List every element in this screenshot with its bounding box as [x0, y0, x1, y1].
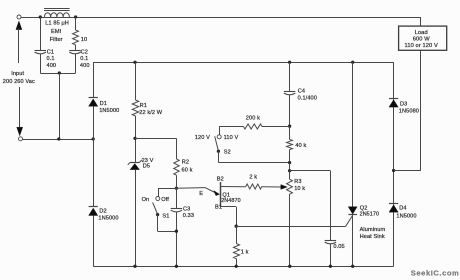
- svg-text:1N5080: 1N5080: [399, 108, 419, 114]
- svg-text:120 V: 120 V: [195, 135, 210, 141]
- svg-text:0.05: 0.05: [333, 244, 344, 250]
- svg-text:1N5000: 1N5000: [98, 216, 118, 222]
- svg-text:D1: D1: [100, 101, 107, 107]
- svg-text:L1 85 μH: L1 85 μH: [45, 20, 69, 26]
- svg-text:D5: D5: [143, 164, 150, 170]
- svg-text:B2: B2: [217, 176, 224, 182]
- svg-text:Off: Off: [161, 197, 169, 203]
- svg-text:10 k: 10 k: [294, 186, 305, 192]
- svg-text:D2: D2: [99, 209, 106, 215]
- svg-text:Load: Load: [415, 30, 428, 36]
- svg-text:Aluminum: Aluminum: [360, 227, 386, 233]
- svg-text:Input: Input: [11, 71, 24, 77]
- svg-text:EMI: EMI: [51, 29, 62, 35]
- svg-text:600 W: 600 W: [413, 37, 430, 43]
- svg-text:22 k/2 W: 22 k/2 W: [139, 110, 162, 116]
- svg-text:Filter: Filter: [50, 37, 63, 43]
- svg-text:110 V: 110 V: [224, 135, 239, 141]
- svg-text:0.33: 0.33: [183, 213, 194, 219]
- svg-text:1N5000: 1N5000: [396, 213, 416, 219]
- svg-text:2N5170: 2N5170: [360, 212, 379, 218]
- svg-text:C4: C4: [298, 89, 305, 95]
- svg-text:S2: S2: [224, 150, 231, 156]
- svg-text:D3: D3: [400, 101, 407, 107]
- svg-text:60 k: 60 k: [182, 168, 193, 174]
- svg-text:2 k: 2 k: [249, 175, 257, 181]
- svg-text:110 or 120 V: 110 or 120 V: [405, 43, 438, 49]
- svg-text:D4: D4: [399, 205, 406, 211]
- svg-text:S1: S1: [162, 214, 169, 220]
- svg-text:400: 400: [47, 63, 57, 69]
- svg-text:R2: R2: [182, 160, 189, 166]
- svg-text:R1: R1: [140, 103, 147, 109]
- svg-text:1N5000: 1N5000: [99, 108, 119, 114]
- svg-text:0.1/400: 0.1/400: [298, 95, 317, 101]
- svg-text:On: On: [142, 197, 150, 203]
- svg-text:400: 400: [80, 63, 90, 69]
- svg-text:C3: C3: [183, 207, 190, 213]
- svg-text:0.1: 0.1: [80, 56, 88, 62]
- svg-text:Heat Sink: Heat Sink: [360, 234, 385, 240]
- svg-text:R3: R3: [294, 179, 301, 185]
- svg-text:C2: C2: [81, 49, 88, 55]
- svg-text:0.1: 0.1: [47, 56, 55, 62]
- svg-text:B1: B1: [215, 204, 222, 210]
- svg-text:2N4870: 2N4870: [221, 198, 240, 204]
- svg-text:C1: C1: [47, 49, 54, 55]
- svg-text:1 k: 1 k: [241, 249, 249, 255]
- svg-text:E: E: [199, 191, 203, 197]
- svg-text:10: 10: [81, 37, 87, 43]
- svg-text:SeekIC.com: SeekIC.com: [411, 269, 460, 278]
- svg-text:40 k: 40 k: [295, 143, 306, 149]
- svg-text:200 k: 200 k: [246, 116, 260, 122]
- svg-text:200 260 Vac: 200 260 Vac: [3, 79, 35, 85]
